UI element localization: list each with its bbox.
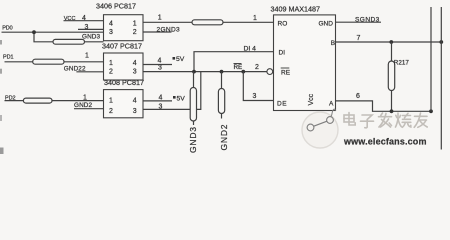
wire DE elbow <box>243 72 273 101</box>
svg-text:DE: DE <box>277 100 287 107</box>
wire U408 pin3 to RE net <box>143 72 201 110</box>
svg-text:3407 PC817: 3407 PC817 <box>102 41 142 50</box>
svg-text:1: 1 <box>158 15 162 22</box>
wire resistor to U408 pin1 <box>52 100 104 102</box>
power label +5V lower <box>173 96 176 99</box>
power label +5V upper <box>173 57 176 60</box>
svg-text:4: 4 <box>109 21 113 28</box>
wire PD2 to resistor <box>5 100 24 102</box>
wire VCC to U406 pin4 <box>64 20 104 22</box>
optocoupler U406 PC817 <box>96 1 143 40</box>
svg-text:1: 1 <box>83 94 87 101</box>
IC U409 MAX1487 <box>267 4 336 110</box>
svg-text:7: 7 <box>357 35 361 42</box>
wire DI net <box>194 52 274 72</box>
svg-text:DI 4: DI 4 <box>244 45 257 52</box>
node junction bus to A line <box>429 109 433 113</box>
svg-text:GND: GND <box>319 21 334 28</box>
svg-text:2: 2 <box>255 64 259 71</box>
watermark char dian <box>344 113 355 126</box>
svg-text:3409 MAX1487: 3409 MAX1487 <box>271 4 321 13</box>
wire RE net U407 pin3 to MAX1487 <box>143 71 267 73</box>
scan artifact marks left edge <box>0 40 4 154</box>
svg-text:1: 1 <box>85 53 89 60</box>
svg-text:PD0: PD0 <box>2 25 12 31</box>
svg-text:2: 2 <box>109 108 113 115</box>
wire MAX1487 GND to SGND3 <box>336 21 382 23</box>
wire U406 pin2 GND3 <box>143 31 172 33</box>
switch jumper blade <box>313 121 327 126</box>
svg-text:6: 6 <box>356 93 360 100</box>
svg-text:4: 4 <box>158 57 162 64</box>
switch jumper circle right <box>327 117 334 124</box>
node junction B to R217 <box>389 40 393 44</box>
wire R217 top hanger <box>391 42 393 61</box>
watermark char fa <box>379 113 392 127</box>
svg-text:R217: R217 <box>394 59 410 66</box>
net label RE overline <box>234 63 242 65</box>
pin bubble RE U409 <box>267 69 273 75</box>
node junction DI-RE <box>192 70 196 74</box>
svg-text:RE: RE <box>234 64 243 71</box>
node junction PD0 <box>32 30 36 34</box>
wire resistor R-PD0 to U406 <box>85 41 104 43</box>
wire PD1 to resistor <box>5 61 33 63</box>
svg-text:1: 1 <box>109 97 113 104</box>
watermark char you <box>414 113 427 127</box>
svg-text:3: 3 <box>253 93 257 100</box>
svg-text:A: A <box>329 101 334 108</box>
svg-text:3: 3 <box>159 104 163 111</box>
wire R217 bottom hanger <box>391 91 393 112</box>
svg-text:GND22: GND22 <box>64 66 86 73</box>
svg-text:3: 3 <box>85 24 89 31</box>
wire stub below R-GND3 <box>193 121 195 125</box>
svg-text:3408 PC817: 3408 PC817 <box>104 78 144 87</box>
svg-text:4: 4 <box>133 60 137 67</box>
wire U408 pin2 GND2 <box>74 108 104 110</box>
svg-text:4: 4 <box>133 97 137 104</box>
switch lead squiggle <box>331 109 336 117</box>
wire U408 pin4 to +5V <box>143 100 172 102</box>
wire MAX1487 A pin6 <box>336 101 432 111</box>
svg-text:RO: RO <box>278 21 288 28</box>
svg-text:1: 1 <box>109 60 113 67</box>
wire resistor to U407 pin1 <box>64 61 104 63</box>
svg-text:GND3: GND3 <box>188 126 198 153</box>
svg-text:2GND3: 2GND3 <box>157 27 181 34</box>
svg-text:3: 3 <box>133 68 137 75</box>
svg-text:PD2: PD2 <box>5 95 15 101</box>
svg-text:RE: RE <box>281 69 291 76</box>
node junction bus R217 <box>390 109 394 113</box>
svg-text:SGND3: SGND3 <box>355 17 380 24</box>
watermark circle logo <box>302 109 338 148</box>
wire U407 pin4 to +5V <box>143 64 172 66</box>
svg-text:GND2: GND2 <box>219 124 229 151</box>
svg-text:5V: 5V <box>176 56 185 63</box>
wire U406 pin3 <box>78 28 104 30</box>
wire MAX1487 B <box>336 41 442 43</box>
wire hanger resistor R-GND2 <box>221 72 223 89</box>
svg-text:2: 2 <box>133 29 137 36</box>
wire stub below R-GND2 <box>221 114 223 119</box>
svg-text:2: 2 <box>109 68 113 75</box>
svg-text:4: 4 <box>82 15 86 22</box>
watermark text CN (vector strokes) <box>344 113 427 128</box>
resistor R-PD0 <box>53 39 85 44</box>
svg-text:3: 3 <box>158 65 162 72</box>
svg-text:www.elecfans.com: www.elecfans.com <box>343 136 427 146</box>
wire hanger resistor R-GND3 <box>193 72 195 88</box>
svg-text:5V: 5V <box>177 95 186 102</box>
wire PD0 net <box>2 31 104 33</box>
svg-text:3: 3 <box>133 108 137 115</box>
wire bus line A vertical <box>430 7 432 111</box>
svg-text:VCC: VCC <box>64 16 76 22</box>
wire U407 pin2 GND22 <box>76 71 103 73</box>
svg-text:GND3: GND3 <box>82 34 101 41</box>
node junction B to bus <box>439 40 443 44</box>
watermark char zi <box>361 115 374 128</box>
resistor R-GND2 <box>218 89 224 114</box>
wire bus line B vertical <box>440 7 442 150</box>
wire PD0 branch down <box>34 32 53 42</box>
svg-text:1: 1 <box>133 21 137 28</box>
switch jumper circle left <box>307 124 314 131</box>
svg-text:4: 4 <box>159 94 163 101</box>
svg-text:Vcc: Vcc <box>308 93 315 105</box>
svg-text:B: B <box>331 40 335 47</box>
node junction R1 hanger <box>220 70 224 74</box>
resistor R-RO <box>192 20 223 25</box>
svg-text:3: 3 <box>109 29 113 36</box>
svg-text:3406 PC817: 3406 PC817 <box>96 1 136 10</box>
optocoupler U407 PC817 <box>102 41 143 80</box>
svg-text:PD1: PD1 <box>3 54 13 60</box>
svg-text:1: 1 <box>253 15 257 22</box>
wire U406 pin1 to RO resistor <box>143 21 192 23</box>
svg-text:GND2: GND2 <box>74 102 93 109</box>
wire resistor to MAX1487 RO <box>223 21 274 23</box>
svg-text:DI: DI <box>279 49 286 56</box>
resistor R-GND3 <box>190 88 196 122</box>
resistor R-PD1 <box>33 59 64 64</box>
watermark char shao <box>396 113 411 127</box>
optocoupler U408 PC817 <box>104 78 144 118</box>
node junction DE branch <box>241 70 245 74</box>
resistor R217 <box>388 61 394 91</box>
resistor R-PD2 <box>23 98 52 103</box>
